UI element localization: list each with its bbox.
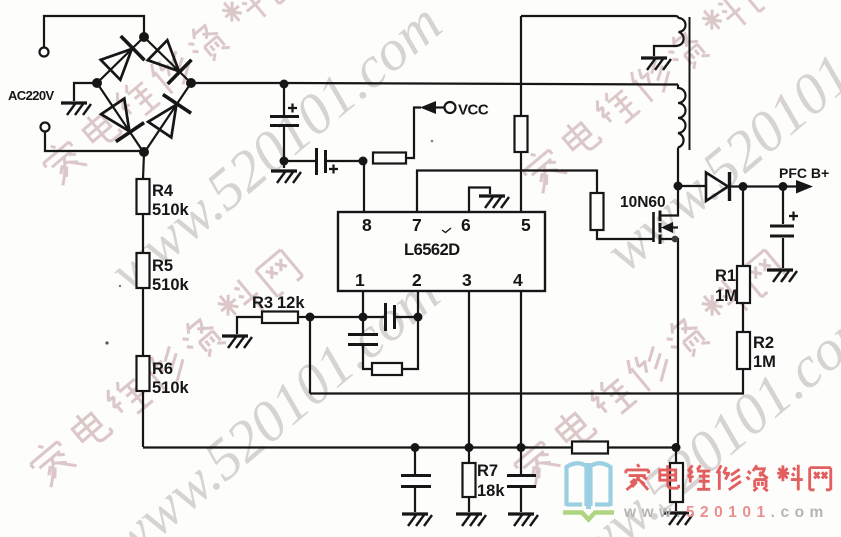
node bus R7 [465, 443, 474, 452]
paper speck [105, 341, 108, 344]
ground R3 [222, 336, 252, 348]
node bridge left [92, 78, 102, 88]
wire pin2 riser [417, 291, 419, 317]
svg-text:10N60: 10N60 [620, 194, 666, 211]
wire drain node to diode [678, 185, 705, 187]
svg-text:PFC B+: PFC B+ [779, 165, 829, 181]
node pin1 [359, 313, 368, 322]
capacitor C6 [348, 335, 378, 345]
resistor gate [591, 193, 604, 230]
transformer main winding [678, 85, 686, 148]
watermark cjk line top-left [38, 0, 304, 187]
VCC circle terminal [445, 102, 456, 113]
resistor VCC series [373, 153, 406, 164]
wire AC top terminal to bridge top [44, 16, 144, 48]
svg-text:4: 4 [513, 270, 523, 290]
wire bus to C1 [283, 84, 285, 115]
transformer aux winding [676, 16, 686, 46]
capacitor C7 [401, 476, 431, 487]
wire resistor to VCC arrow [406, 108, 421, 159]
paper speck [431, 140, 434, 143]
transformer core line [689, 17, 691, 150]
node bus sense [672, 443, 681, 452]
wire R3 node down to feedback run [309, 317, 311, 394]
wire R1 to R2 [742, 303, 744, 332]
capacitor C5 between pin1 and pin2 [363, 303, 418, 331]
svg-text:18k: 18k [477, 482, 505, 500]
body arrow [672, 226, 678, 228]
wire divider chain [143, 153, 144, 447]
ground at AC side [61, 103, 91, 115]
wire output cap to ground [782, 238, 784, 268]
svg-text:510k: 510k [152, 201, 190, 219]
resistor R9 bus series [572, 442, 608, 454]
wire node to C2 [284, 160, 315, 162]
wire ZCD vertical [520, 16, 522, 212]
wire pin4 riser [520, 291, 522, 447]
svg-text:R6: R6 [152, 360, 173, 378]
resistor R4 [137, 179, 150, 214]
wire bridge left node to ground [74, 83, 97, 101]
wire pin8 riser [363, 161, 365, 212]
bridge diode D_LB (left to bottom) [101, 99, 144, 142]
svg-text:510k: 510k [152, 276, 190, 294]
svg-text:6: 6 [461, 215, 471, 235]
svg-text:R4: R4 [152, 182, 174, 200]
node bus cap2 [517, 443, 526, 452]
svg-text:R7: R7 [477, 462, 498, 480]
node bridge bottom [139, 147, 149, 157]
wire ground to R3 [237, 317, 262, 334]
junction blob [672, 236, 679, 243]
diode D5 output [706, 172, 730, 201]
ground below C1 [271, 171, 301, 183]
channel segments [659, 211, 662, 245]
AC terminal top [40, 48, 49, 57]
wire node to pin1 node [310, 316, 363, 318]
node below C1 [280, 157, 289, 166]
node bus cap1 [411, 443, 420, 452]
footer logo [563, 463, 831, 521]
node R1 top [739, 182, 748, 191]
svg-text:R1: R1 [715, 267, 736, 285]
logo book swoosh [563, 513, 614, 520]
wire ZCD top [521, 15, 676, 17]
wire R7 to ground [468, 497, 470, 512]
ground C8 [508, 514, 538, 526]
ground sense [663, 513, 693, 525]
wire bottom bus [143, 446, 676, 448]
node bus at C1 [280, 80, 289, 89]
wire sense resistor to ground [675, 502, 677, 511]
bridge edge wires [97, 37, 191, 153]
resistor R5 [137, 253, 150, 288]
wire pin1 riser [362, 291, 364, 317]
wire diode to output [731, 185, 796, 187]
ground aux winding [641, 58, 671, 70]
logo title text [626, 464, 831, 491]
svg-text:1: 1 [355, 270, 365, 290]
resistor R1 [737, 266, 750, 303]
AC terminal bottom [41, 123, 50, 132]
wire C2 to VCC node [327, 160, 364, 162]
node bridge right [186, 78, 196, 88]
wire output cap [782, 187, 784, 225]
ground R7 [456, 514, 486, 526]
wire pin1 node down to C6 [362, 317, 364, 333]
wire C1 to ground node [283, 127, 285, 168]
wire AC bottom terminal to bridge bottom [45, 132, 144, 152]
node VCC / pin8 [359, 157, 368, 166]
svg-text:8: 8 [362, 215, 372, 235]
bridge diode D_TR (top to right) [148, 40, 192, 84]
svg-text:5: 5 [521, 215, 531, 235]
wire main winding to drain node [677, 148, 679, 187]
wire arrow to VCC circle [436, 106, 444, 108]
resistor R2 [737, 332, 750, 369]
IC U1 L6562D [338, 212, 545, 291]
watermark cjk line top-right [518, 0, 784, 195]
svg-text:3: 3 [462, 270, 472, 290]
resistor R3 [262, 312, 298, 324]
svg-text:510k: 510k [152, 379, 190, 397]
wire bus to R7 [468, 447, 470, 463]
capacitor C1 electrolytic [270, 104, 299, 126]
svg-text:R3: R3 [252, 294, 273, 312]
svg-text:7: 7 [412, 215, 422, 235]
node pin2 [414, 313, 423, 322]
wire node to R1 [742, 187, 744, 267]
wire C8 to ground [520, 488, 522, 512]
ground C7 [402, 514, 432, 526]
resistor R8 feedback [372, 363, 402, 375]
watermark cjk line bottom-left [25, 246, 304, 490]
svg-text:R2: R2 [753, 334, 774, 352]
transistor Q1 10N60 [654, 186, 679, 448]
svg-text:www.520101.com: www.520101.com [623, 504, 829, 521]
logo book icon [567, 463, 611, 509]
svg-text:AC220V: AC220V [8, 88, 54, 103]
svg-text:VCC: VCC [458, 102, 489, 119]
resistor ZCD [515, 116, 528, 152]
wire main top bus [191, 83, 678, 85]
svg-text:12k: 12k [277, 294, 305, 312]
ground output cap [767, 270, 797, 282]
VCC arrow [420, 101, 436, 114]
capacitor C2 VCC electrolytic [317, 148, 339, 175]
drain lead [660, 186, 678, 216]
svg-text:1M: 1M [715, 287, 738, 305]
svg-text:R5: R5 [152, 257, 173, 275]
svg-text:2: 2 [412, 270, 422, 290]
wire C7 to ground [414, 488, 416, 512]
node drain [674, 182, 683, 191]
wire pin3 riser [468, 291, 470, 447]
node bridge top [139, 32, 149, 42]
ground pin6 [479, 196, 509, 208]
capacitor C4 output electrolytic [770, 212, 798, 237]
wire R2 bottom feedback run [310, 369, 743, 394]
wire aux to ground [654, 46, 677, 56]
PFC B+ arrow [796, 180, 813, 194]
wire pin6 to ground [469, 188, 490, 213]
node R3 out [306, 313, 315, 322]
wire R8 to pin2 node [402, 317, 418, 369]
bridge diode D_BR (bottom to right) [148, 95, 191, 138]
node output cap [779, 182, 788, 191]
wire C6 to R8 [363, 346, 372, 369]
resistor R6 [137, 356, 150, 391]
wire pin7 to gate resistor [417, 171, 597, 213]
wire bus to C8 [520, 447, 522, 474]
source lead [660, 239, 678, 448]
watermark cjk line bottom-right [509, 246, 788, 490]
bridge diode D_LT (left to top) [101, 36, 145, 80]
svg-text:1M: 1M [753, 353, 776, 371]
wire source to sense node handled above; node to sense resistor [675, 447, 677, 463]
paper speck [119, 285, 121, 287]
wire gate resistor to gate [597, 230, 653, 239]
svg-text:L6562D: L6562D [404, 241, 460, 259]
small mark near pin 6 [442, 228, 451, 233]
gate bar [652, 212, 655, 242]
wire bus to C7 [414, 447, 416, 474]
resistor R10 sense [670, 463, 683, 502]
resistor R7 [463, 463, 476, 497]
capacitor C8 [507, 476, 536, 487]
wire R3 to node [298, 316, 310, 318]
